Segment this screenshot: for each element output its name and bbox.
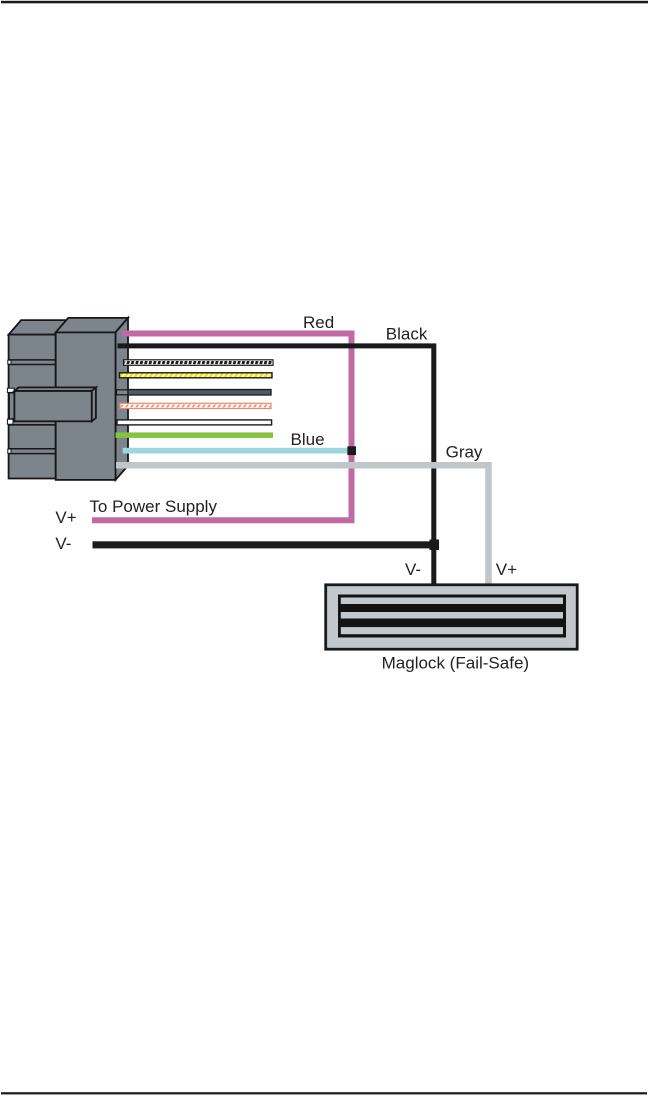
svg-text:Blue: Blue xyxy=(291,430,325,449)
svg-text:Red: Red xyxy=(303,313,334,332)
connector J1 main body xyxy=(56,318,128,480)
wire dark gray W3 xyxy=(128,390,271,396)
wire blue (cyan) xyxy=(123,448,352,454)
svg-text:Gray: Gray xyxy=(446,443,483,462)
svg-text:V-: V- xyxy=(55,534,71,553)
wire black V- from power supply xyxy=(93,541,437,548)
junction node: V- wire to black vertical xyxy=(430,540,440,551)
svg-text:Maglock (Fail-Safe): Maglock (Fail-Safe) xyxy=(382,653,529,672)
top rule xyxy=(1,1,648,4)
wire green W6 xyxy=(116,432,274,438)
svg-text:V+: V+ xyxy=(55,508,76,527)
wire gray to maglock V+ xyxy=(116,465,489,585)
junction node: blue wire to red vertical xyxy=(347,446,356,455)
wire white with black hatching W1 xyxy=(124,360,274,366)
connector J1 key tab xyxy=(9,387,96,421)
wire red (pink) to power supply V+ xyxy=(92,334,352,521)
bottom rule xyxy=(1,1092,647,1094)
svg-text:To Power Supply: To Power Supply xyxy=(89,497,217,516)
maglock M1 body xyxy=(324,583,578,650)
wire black to maglock V- xyxy=(118,346,434,586)
svg-text:Black: Black xyxy=(386,324,428,343)
wire stub (dark gray wire pin) xyxy=(117,390,129,395)
svg-text:V+: V+ xyxy=(496,560,517,579)
wire yellow with white hatching W2 xyxy=(120,373,273,378)
wire white W5 xyxy=(117,420,272,425)
connector J1 left tab block xyxy=(7,320,68,478)
svg-text:V-: V- xyxy=(405,560,421,579)
wire salmon with white hatching W4 xyxy=(120,403,271,408)
